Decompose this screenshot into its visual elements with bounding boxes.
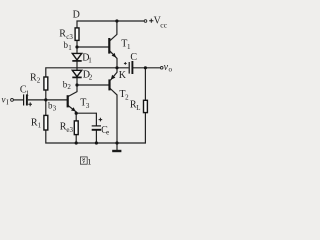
label Rc3 [59,29,73,41]
wire b3 to T3 base [46,99,67,101]
wire T3 emitter [68,106,76,121]
node b2 [75,83,78,86]
ground stem [116,143,118,151]
label T2 [119,89,129,102]
power terminal +Vcc [144,20,147,23]
wire b3 to R1 [45,100,47,115]
wire T3 collector to b2 [68,85,77,96]
transistor T2 [110,75,116,91]
resistor Re3 [74,121,78,135]
wire bootstrap R2 to capacitor C [46,68,129,77]
wire b2 to T2 base [77,84,109,86]
wire Rc3 to D1 [76,41,78,54]
resistor Rc3 [75,28,79,41]
svg-text:2: 2 [125,93,129,101]
svg-text:L: L [136,104,140,112]
label R2 [30,73,41,85]
wire T2 emitter to node K [110,68,117,80]
junction Ce on rail [95,141,98,144]
label D2 [83,70,93,82]
svg-text:e: e [106,129,109,137]
wire Ce to ground rail [95,131,97,144]
capacitor Ce [92,118,103,130]
svg-text:e3: e3 [66,126,73,134]
svg-text:R: R [59,29,66,40]
svg-text:v: v [2,95,6,105]
svg-text:1: 1 [26,89,30,97]
svg-text:2: 2 [37,76,41,84]
label node D [73,10,80,21]
capacitor C1 [24,94,32,106]
wire T3 emitter node to Ce [76,113,96,125]
svg-text:1: 1 [88,57,92,65]
svg-text:2: 2 [67,83,71,91]
label T3 [80,97,90,110]
label K [119,70,127,81]
wire C1 to b3 [28,99,46,101]
svg-text:1: 1 [127,43,131,51]
svg-text:3: 3 [53,104,57,112]
svg-text:K: K [119,70,127,81]
svg-text:1: 1 [38,121,42,129]
svg-text:o: o [169,66,173,74]
resistor R1 [44,115,48,130]
svg-text:D: D [73,10,80,21]
wire input terminal to C1 [13,99,23,101]
label b1 [64,40,73,52]
wire output node to RL [144,68,146,100]
wire Vcc rail [77,21,144,28]
node T3 emitter junction [75,112,78,115]
transistor T1 [109,38,116,57]
label R1 [31,118,42,130]
label RL [130,100,141,113]
figure caption 图1 [80,156,91,166]
junction T1 collector on Vcc rail [115,19,118,22]
svg-text:1: 1 [87,156,91,166]
wire b1 to T1 base [77,46,109,48]
junction Re3 on rail [75,141,78,144]
capacitor C [124,61,132,74]
input terminal vi [11,99,14,102]
wire T1 collector [110,21,117,41]
wire T1 emitter to node K [110,51,117,68]
resistor RL [144,100,148,112]
svg-text:cc: cc [160,20,167,29]
wire T2 collector to ground rail [110,89,117,144]
node output junction [144,66,147,69]
node b1 [75,45,78,48]
transistor T3 [68,95,76,111]
svg-text:3: 3 [86,102,90,110]
wire D2 to b2 [76,77,78,85]
label D1 [82,53,92,65]
ground bar [112,150,121,152]
label T1 [121,38,131,51]
svg-text:C: C [130,52,137,63]
label Re3 [60,121,74,134]
diode D1 [72,53,81,61]
label vo [164,62,173,74]
node K junction [115,66,118,69]
wire Re3 to ground rail [75,135,77,143]
wire capacitor C to output terminal [133,67,161,69]
svg-text:1: 1 [68,44,72,52]
resistor R2 [44,77,48,90]
ground rail [46,113,146,143]
label b3 [48,100,57,112]
output terminal vo [160,67,163,70]
label vi [2,95,10,107]
label C1 [20,85,30,98]
svg-text:2: 2 [89,74,93,82]
label Ce [101,125,109,137]
label C output cap [130,52,137,63]
node b3 [44,98,47,101]
wire D1 to D2 [76,60,78,70]
label +Vcc [149,15,167,29]
wire R2 to b3 [45,90,47,100]
diode D2 [72,70,81,77]
junction ground on rail [115,141,118,144]
label b2 [63,79,72,91]
